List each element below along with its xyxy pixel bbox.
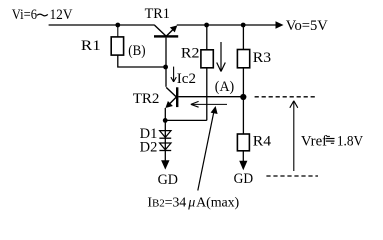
junction dot R1/top rail xyxy=(115,23,120,28)
arrow Vref measurement xyxy=(290,101,298,171)
svg-text:Vref: Vref xyxy=(301,134,327,150)
junction dot R3/top rail xyxy=(241,23,246,28)
diode D2 xyxy=(159,143,171,151)
wire R1 top lead xyxy=(117,25,119,37)
junction dot R2/top rail xyxy=(204,23,209,28)
approx-equals glyph xyxy=(326,136,335,144)
wire R2 top lead xyxy=(206,25,208,50)
transistor TR1 xyxy=(154,25,178,37)
svg-text:TR2: TR2 xyxy=(133,91,160,107)
resistor R2 xyxy=(201,50,213,68)
svg-text:GD: GD xyxy=(158,172,179,188)
wire R3 bottom lead to node A xyxy=(242,68,244,97)
junction dot node B xyxy=(163,65,168,70)
svg-text:R3: R3 xyxy=(253,50,271,66)
wire D2 to ground arrow xyxy=(161,160,169,169)
arrow IB2 callout diagonal xyxy=(198,106,218,191)
svg-text:R1: R1 xyxy=(81,38,101,54)
wire TR2 emitter lead xyxy=(164,108,166,120)
svg-text:D2: D2 xyxy=(140,140,158,156)
wire emitter node to R2 bottom xyxy=(165,119,207,121)
tilde glyph in Vi=6~12V xyxy=(37,14,48,16)
wire top rail left segment xyxy=(49,24,155,26)
svg-text:12V: 12V xyxy=(50,7,73,23)
arrow IB2 horizontal (points left) xyxy=(191,101,227,107)
arrow current into node A xyxy=(217,42,226,72)
wire TR1 base / TR2 collector lead xyxy=(165,38,167,87)
svg-text:1.8V: 1.8V xyxy=(337,134,363,150)
resistor R3 xyxy=(237,50,249,68)
svg-text:R2: R2 xyxy=(181,46,200,62)
resistor R4 xyxy=(237,134,249,151)
svg-text:(A): (A) xyxy=(215,79,234,95)
wire top rail right segment xyxy=(177,24,277,26)
svg-text:(B): (B) xyxy=(128,43,145,59)
wire TR2 base to node A xyxy=(178,96,243,98)
svg-text:TR1: TR1 xyxy=(145,6,170,22)
arrowhead to Vo output xyxy=(276,21,284,28)
wire R4 to ground arrow xyxy=(239,151,247,170)
wire R1 bottom to node B xyxy=(118,55,166,67)
wire R3 top lead xyxy=(242,25,244,50)
wire diode chain through D1 D2 xyxy=(164,120,166,162)
svg-text:R4: R4 xyxy=(253,133,272,149)
svg-text:IB2=34μA(max): IB2=34μA(max) xyxy=(147,196,239,211)
transistor TR2 xyxy=(165,87,178,108)
svg-text:GD: GD xyxy=(234,171,254,187)
svg-text:Vo=5V: Vo=5V xyxy=(286,18,328,34)
arrow Ic2 current xyxy=(171,67,176,82)
svg-text:Ic2: Ic2 xyxy=(177,71,196,87)
dashed reference line at ground level xyxy=(266,175,318,177)
resistor R1 xyxy=(111,37,123,55)
junction dot emitter node xyxy=(163,118,168,123)
wire R2 bottom lead xyxy=(206,68,208,121)
wire node A to R4 xyxy=(242,97,244,134)
dashed reference line at node A xyxy=(255,96,315,98)
svg-text:Vi=6: Vi=6 xyxy=(12,7,38,23)
diode D1 xyxy=(159,131,171,139)
junction dot node A xyxy=(240,94,246,100)
